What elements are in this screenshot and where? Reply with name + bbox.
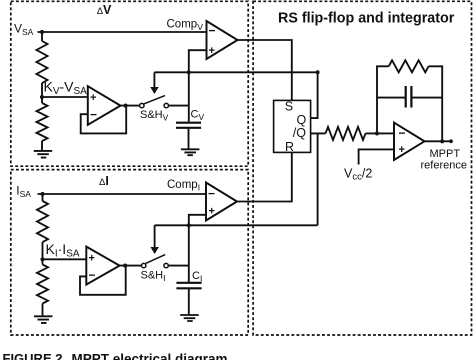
svg-text:CompI: CompI [167, 179, 200, 193]
svg-text:reference: reference [421, 160, 467, 172]
svg-text:−: − [209, 24, 216, 38]
svg-text:+: + [209, 45, 215, 57]
svg-text:+: + [89, 252, 95, 264]
svg-text:S: S [285, 100, 293, 114]
svg-text:S&HV: S&HV [140, 109, 169, 123]
svg-text:ISA: ISA [16, 184, 31, 200]
svg-text:MPPT electrical diagram: MPPT electrical diagram [72, 352, 228, 360]
svg-text:CI: CI [192, 270, 202, 284]
svg-text:CV: CV [191, 109, 205, 123]
svg-text:S&HI: S&HI [141, 269, 166, 283]
svg-text:R: R [285, 140, 294, 154]
svg-text:Vcc/2: Vcc/2 [344, 167, 372, 183]
svg-text:−: − [208, 187, 215, 201]
svg-text:+: + [209, 206, 215, 218]
svg-text:+: + [90, 92, 96, 104]
svg-text:KI·ISA: KI·ISA [46, 241, 80, 260]
svg-text:ΔV: ΔV [97, 3, 112, 17]
svg-text:FIGURE 2: FIGURE 2 [3, 351, 63, 360]
svg-text:MPPT: MPPT [430, 148, 461, 160]
svg-text:RS flip-flop and integrator: RS flip-flop and integrator [278, 11, 455, 27]
svg-text:CompV: CompV [167, 19, 204, 33]
svg-text:Q: Q [297, 113, 307, 127]
svg-text:/Q: /Q [293, 126, 306, 140]
svg-text:+: + [399, 144, 405, 156]
svg-text:−: − [399, 126, 406, 140]
svg-text:ΔI: ΔI [99, 174, 109, 188]
svg-text:−: − [90, 108, 97, 122]
svg-text:−: − [89, 268, 96, 282]
svg-text:VSA: VSA [14, 21, 34, 37]
svg-text:KV-VSA: KV-VSA [44, 79, 88, 98]
